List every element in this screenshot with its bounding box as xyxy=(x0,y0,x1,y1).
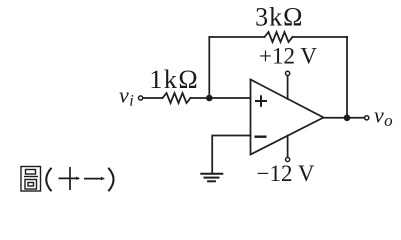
svg-text:−12 V: −12 V xyxy=(257,161,315,186)
wire R2 to top right corner xyxy=(293,36,348,38)
op-amp minus sign xyxy=(255,135,267,137)
output terminal (open circle) at v_o xyxy=(365,116,369,120)
wire inverting input to ground xyxy=(212,136,250,174)
wire op-amp output to terminal xyxy=(324,117,365,119)
svg-text:3kΩ: 3kΩ xyxy=(255,3,303,32)
svg-text:vo: vo xyxy=(374,103,393,131)
input terminal (open circle) at v_i xyxy=(139,96,143,100)
op-amp U1 triangle xyxy=(251,80,324,155)
wire +12V supply to op-amp top xyxy=(287,76,289,99)
svg-text:+12 V: +12 V xyxy=(259,44,317,69)
CJK glyph one (dash) xyxy=(84,177,105,181)
wire top left horizontal to resistor R2 xyxy=(209,36,264,38)
CJK glyph ten (cross) xyxy=(59,167,81,190)
wire R1 to op-amp noninverting input xyxy=(191,97,251,99)
close parenthesis xyxy=(108,168,113,191)
wire right vertical down to output node xyxy=(346,37,348,118)
+12V terminal (open circle) xyxy=(286,71,290,75)
svg-text:1kΩ: 1kΩ xyxy=(149,65,199,94)
wire op-amp bottom to -12V supply xyxy=(287,135,289,157)
output node junction dot xyxy=(344,115,351,122)
ground xyxy=(200,174,223,182)
svg-text:vi: vi xyxy=(119,83,134,110)
caption: CJK figure label drawn as paths xyxy=(21,167,114,192)
wire vertical feedback branch from node A up xyxy=(208,37,210,98)
-12V terminal (open circle) xyxy=(286,157,290,161)
resistor R1 1kOhm zigzag xyxy=(163,93,191,103)
resistor R2 3kOhm zigzag xyxy=(265,32,293,42)
open parenthesis xyxy=(46,168,51,191)
wire input terminal to resistor R1 xyxy=(143,97,162,99)
CJK glyph TU (figure) xyxy=(21,167,41,192)
node A junction dot xyxy=(206,95,213,102)
op-amp plus sign xyxy=(255,95,267,107)
